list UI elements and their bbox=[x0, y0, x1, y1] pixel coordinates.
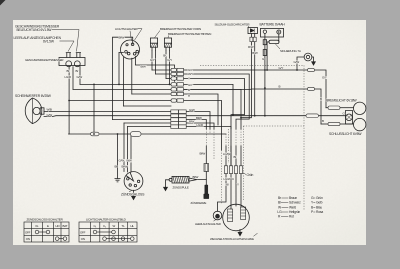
multipin connector row y111.6 bbox=[171, 110, 179, 114]
battery left terminal bbox=[263, 30, 266, 33]
multipin connector row y119.5 bbox=[171, 118, 179, 122]
leader fuse label bbox=[276, 44, 281, 49]
rectifier diode symbol bbox=[250, 29, 254, 33]
svg-text:Bl/W: Bl/W bbox=[193, 175, 199, 179]
connector row y70 bbox=[171, 68, 177, 71]
svg-text:Grün: Grün bbox=[316, 196, 323, 200]
svg-text:Hellgrün: Hellgrün bbox=[289, 210, 300, 214]
svg-text:Bl: Bl bbox=[278, 201, 281, 205]
svg-text:E: E bbox=[47, 224, 49, 228]
svg-text:Rosa: Rosa bbox=[316, 210, 323, 214]
svg-text:Y: Y bbox=[188, 77, 190, 81]
svg-text:Bl/W: Bl/W bbox=[119, 36, 125, 40]
headlight reflector bbox=[25, 98, 42, 124]
wire light switch leg3 to connector top bbox=[135, 57, 174, 82]
wire row y70 G/Y long run to brake light bbox=[152, 69, 171, 71]
svg-text:Weiß: Weiß bbox=[289, 205, 296, 209]
svg-text:Br: Br bbox=[76, 69, 79, 73]
brake light switch rear body bbox=[164, 38, 171, 47]
svg-text:Grün: Grün bbox=[247, 173, 254, 177]
alternator body bbox=[223, 204, 250, 231]
corner mark bbox=[0, 0, 6, 6]
leader alternator label bbox=[254, 233, 258, 236]
wire rectifier leg R/W bbox=[241, 34, 251, 118]
alternator connector 3 bbox=[234, 166, 237, 174]
light switch body bbox=[121, 40, 140, 59]
svg-text:ZÜNDKERZE: ZÜNDKERZE bbox=[191, 201, 207, 205]
headlight bulb bbox=[33, 107, 40, 114]
svg-text:LG/W: LG/W bbox=[223, 152, 230, 156]
svg-text:Blau: Blau bbox=[316, 205, 322, 209]
svg-text:6V1.5W: 6V1.5W bbox=[43, 39, 55, 43]
svg-text:ZÜNDSCHLOSS-SCHALTER: ZÜNDSCHLOSS-SCHALTER bbox=[27, 217, 64, 221]
wire ignition switch ground stub bbox=[133, 190, 135, 196]
alternator connector 4 bbox=[239, 166, 242, 174]
oval connector tail bulb bbox=[328, 122, 340, 125]
svg-text:G/W: G/W bbox=[47, 113, 53, 117]
table ignition switch bbox=[24, 222, 69, 242]
svg-text:B: B bbox=[188, 93, 190, 97]
svg-text:ZÜNDSCHLOSS: ZÜNDSCHLOSS bbox=[121, 193, 145, 197]
oval connector green lamp run bbox=[306, 114, 319, 118]
leader light switch label bbox=[130, 29, 142, 41]
leader speedometer label bbox=[58, 59, 60, 61]
ground under alternator bbox=[238, 232, 242, 236]
leader leerlaufschalter label bbox=[214, 220, 217, 222]
wire row y134 green with inline connectors bbox=[69, 133, 91, 135]
dashed frame left x243.3 bbox=[242, 126, 244, 200]
wire speedo lamp lead1 bbox=[68, 67, 70, 134]
svg-text:Bl/W: Bl/W bbox=[196, 116, 202, 120]
dashed wire x228.5 continuation bbox=[228, 129, 230, 163]
svg-text:Bl/W: Bl/W bbox=[122, 165, 128, 169]
svg-text:LEERLAUF-ANZEIGELAMPCHEN: LEERLAUF-ANZEIGELAMPCHEN bbox=[14, 36, 62, 40]
svg-text:OFF: OFF bbox=[25, 231, 31, 235]
svg-text:Gelb: Gelb bbox=[316, 201, 323, 205]
wire row y89 B run to tail light bbox=[184, 88, 308, 90]
table titles and headers bbox=[25, 217, 134, 241]
svg-text:B: B bbox=[320, 97, 322, 101]
wire battery left terminal stem bbox=[264, 34, 266, 37]
svg-text:LEERLAUFSCHALTER: LEERLAUFSCHALTER bbox=[195, 222, 221, 226]
wire light switch left exit bbox=[119, 52, 123, 84]
wire horn stem and ground arm bbox=[297, 57, 304, 70]
connector row y84.4 bbox=[171, 83, 177, 86]
svg-text:Y: Y bbox=[237, 183, 239, 187]
wire fuse to junction bbox=[266, 42, 268, 70]
svg-text:WECHSELSTROM-LICHTMASCHINE: WECHSELSTROM-LICHTMASCHINE bbox=[210, 237, 254, 241]
dashed frame right x304 bbox=[303, 65, 305, 210]
dashed frame top y65 bbox=[200, 64, 304, 66]
tail lamp bracket bbox=[346, 111, 353, 125]
leader gruen note bbox=[243, 173, 246, 175]
wire brake switch2 legs bbox=[165, 51, 167, 79]
wire brake light feed bbox=[326, 107, 328, 109]
alternator coil element right bbox=[241, 207, 246, 220]
multipin connector row y123 bbox=[171, 121, 179, 125]
svg-text:W/Y: W/Y bbox=[188, 72, 193, 76]
brake light bulb bbox=[354, 102, 366, 114]
svg-text:BREMSLICHTSCHALTER VORN: BREMSLICHTSCHALTER VORN bbox=[160, 27, 201, 31]
wire coil right lead to plug line bbox=[189, 178, 206, 181]
wire trunk x241 down to connector4 bbox=[240, 89, 242, 129]
svg-text:SILIZIUM-GLEICHRICHTER: SILIZIUM-GLEICHRICHTER bbox=[215, 23, 251, 27]
dashed segment x241 bbox=[240, 129, 242, 146]
wire connector3 into alternator bbox=[235, 174, 237, 207]
connector row y78.5 bbox=[171, 77, 177, 80]
dashed segment x231 bbox=[230, 129, 232, 146]
svg-text:SCHEINWERFER 6V25W: SCHEINWERFER 6V25W bbox=[15, 94, 52, 98]
oval connector brake run bbox=[308, 68, 315, 71]
svg-text:BAT: BAT bbox=[63, 224, 68, 228]
wire alternator ground stub bbox=[239, 229, 241, 232]
wire ignition feed x124 bbox=[123, 123, 125, 172]
wire ignition feed x117.5 from row134 bbox=[117, 134, 119, 179]
wire row y100.5 right segment bbox=[184, 101, 222, 151]
tail light bulb bbox=[354, 118, 366, 130]
wire ignition feed x127.5 bbox=[127, 127, 129, 173]
wire row y106 bbox=[123, 105, 171, 107]
battery right terminal bbox=[277, 30, 281, 34]
dashed vert near bundle bbox=[221, 150, 223, 204]
svg-text:Rot: Rot bbox=[289, 215, 294, 219]
wire light switch Bl/W top wire bbox=[113, 37, 133, 119]
wire light switch leg2 bbox=[131, 58, 133, 94]
horn body bbox=[304, 53, 312, 61]
svg-text:GESCHWINDIGKEITSMESSER: GESCHWINDIGKEITSMESSER bbox=[25, 58, 63, 62]
svg-text:R/W: R/W bbox=[248, 45, 254, 49]
svg-text:OFF: OFF bbox=[80, 231, 86, 235]
spark plug body bbox=[205, 185, 208, 194]
svg-text:B/W: B/W bbox=[252, 51, 258, 55]
ignition switch terminals bbox=[127, 178, 129, 180]
svg-text:LG/R: LG/R bbox=[197, 123, 204, 127]
leader speedo illumination label bbox=[52, 30, 79, 52]
svg-text:SCHLUSSLICHT 6V5W: SCHLUSSLICHT 6V5W bbox=[329, 132, 362, 136]
svg-text:SICHERUNG 7A: SICHERUNG 7A bbox=[280, 49, 301, 53]
oval connector tail run bbox=[308, 87, 315, 90]
dashed frame mid y126 bbox=[243, 125, 304, 127]
svg-text:B/W: B/W bbox=[189, 120, 195, 124]
svg-text:B/W: B/W bbox=[127, 159, 133, 163]
svg-text:G/Y: G/Y bbox=[150, 58, 155, 62]
table light switch bbox=[79, 222, 137, 242]
alternator connector 2 bbox=[229, 166, 232, 174]
svg-text:G/Y: G/Y bbox=[279, 66, 284, 70]
connector row y89.4 bbox=[171, 88, 177, 91]
svg-text:BREMSLICHTSCHALTER HINTEN: BREMSLICHTSCHALTER HINTEN bbox=[168, 32, 211, 36]
wire connector1 to neutral switch bbox=[218, 174, 227, 212]
oval connector on green row large bbox=[131, 132, 142, 137]
wire row y126.5 bbox=[128, 126, 172, 128]
multipin connector row y126.5 bbox=[171, 125, 179, 128]
speedometer terminal posts bbox=[66, 53, 81, 58]
wire row y74 bbox=[156, 73, 172, 75]
battery cell connector lower bbox=[263, 50, 266, 56]
neutral switch body bbox=[213, 211, 222, 220]
rectifier lead connectors bbox=[250, 37, 253, 41]
svg-text:LG/W: LG/W bbox=[224, 177, 231, 181]
wire light switch leg1 bbox=[122, 58, 124, 107]
speedometer lamp right bbox=[74, 61, 80, 67]
dashed wire x210 stub bbox=[209, 129, 211, 134]
battery cell connector upper bbox=[263, 40, 266, 45]
svg-text:LG/R: LG/R bbox=[65, 75, 72, 79]
inline connectors (bullet style) bbox=[91, 37, 341, 173]
svg-text:W/B: W/B bbox=[47, 108, 52, 112]
wire headlight upper W/B row y111.4 bbox=[44, 110, 171, 112]
leader lines for labels bbox=[52, 25, 280, 237]
svg-text:B: B bbox=[188, 88, 190, 92]
wire speedo lamp lead3 bbox=[79, 66, 81, 84]
ignition switch body bbox=[124, 172, 143, 191]
svg-text:G/W: G/W bbox=[119, 159, 125, 163]
wire speedo row y100.5 bbox=[69, 100, 171, 102]
ignition coil left terminal bbox=[169, 178, 172, 181]
wire spark plug lead lower bbox=[205, 172, 207, 187]
ground at ignition coil bbox=[164, 187, 168, 190]
svg-text:G/Y: G/Y bbox=[322, 76, 327, 80]
svg-text:Braun: Braun bbox=[289, 196, 297, 200]
component name labels bbox=[14, 23, 363, 241]
svg-text:LG: LG bbox=[277, 210, 282, 214]
leader neutral lamp label bbox=[60, 41, 75, 52]
wire connector2 into alternator bbox=[230, 174, 232, 210]
speedometer lamp left bbox=[66, 61, 72, 67]
leader rectifier label bbox=[246, 25, 250, 27]
wire ignition feed x131 bbox=[130, 134, 132, 172]
fuse capsule bbox=[269, 40, 279, 43]
wire speedo lamp lead2 bbox=[72, 67, 74, 90]
connector row y94 bbox=[171, 92, 177, 95]
multipin connector row y115.7 bbox=[171, 114, 179, 118]
svg-text:G/W: G/W bbox=[294, 60, 300, 64]
wire bundle x226 down to connector1 bbox=[225, 146, 227, 166]
alternator coil element left bbox=[228, 209, 233, 222]
wire brake switch1 legs bbox=[151, 51, 153, 71]
oval connector brake bulb bbox=[328, 106, 340, 109]
wire coil left lead to ground bbox=[166, 180, 170, 188]
wire color labels bbox=[47, 36, 346, 187]
dashed segment x206.3 bbox=[205, 129, 207, 146]
ignition coil body bbox=[172, 176, 189, 183]
svg-text:B/W: B/W bbox=[141, 65, 147, 69]
svg-text:Bl/W: Bl/W bbox=[200, 152, 206, 156]
leader zundschloss label bbox=[129, 191, 132, 192]
svg-text:ON: ON bbox=[81, 237, 85, 241]
dashed wire x214 continuation bbox=[213, 129, 215, 160]
svg-text:G/Y: G/Y bbox=[167, 58, 172, 62]
svg-text:B: B bbox=[279, 84, 281, 88]
svg-text:BELEUCHTUNG 6V1.5W: BELEUCHTUNG 6V1.5W bbox=[17, 28, 53, 32]
ground under ignition switch bbox=[132, 196, 136, 199]
spark plug connector box bbox=[204, 164, 209, 172]
wire battery left leg down to green line bbox=[264, 37, 266, 116]
connector row y74 bbox=[171, 72, 177, 75]
ignition switch wedge bbox=[126, 172, 134, 181]
legend color codes bbox=[277, 196, 323, 219]
wire headlight lower G/W row y115.7 long to lamp body bbox=[44, 115, 171, 118]
wire row y84.4 bbox=[80, 83, 171, 85]
wire drop x94 to green row bbox=[93, 84, 95, 134]
wire row y94 bbox=[132, 93, 171, 95]
dashed segment x226 bbox=[225, 134, 227, 146]
headlight socket bbox=[40, 108, 44, 114]
battery body bbox=[261, 28, 284, 37]
light switch terminals bbox=[125, 51, 128, 54]
svg-text:G/W: G/W bbox=[77, 75, 83, 79]
svg-text:ZÜNDSPULE: ZÜNDSPULE bbox=[173, 185, 189, 189]
ground at horn bbox=[312, 62, 316, 65]
svg-text:B: B bbox=[322, 119, 324, 123]
wire row y119.5 Bl/W to ignition coil bbox=[113, 119, 172, 121]
brake light switch front body bbox=[150, 38, 157, 47]
page bbox=[13, 20, 366, 245]
dashed segment x236 bbox=[235, 129, 237, 146]
ground bars left of ignition switch bbox=[115, 179, 121, 182]
svg-text:G/Y: G/Y bbox=[188, 83, 193, 87]
svg-text:Br: Br bbox=[163, 53, 166, 57]
rectifier box bbox=[248, 27, 257, 33]
svg-text:LICHTSCHALTER: LICHTSCHALTER bbox=[115, 27, 138, 31]
wire battery fuse branch bbox=[278, 34, 280, 42]
wire row y83 right segment bbox=[184, 84, 234, 114]
svg-text:LICHTSCHALTER-SCHALTBILD: LICHTSCHALTER-SCHALTBILD bbox=[86, 217, 127, 221]
alternator connector 1 bbox=[224, 166, 227, 174]
leader brake switch labels bbox=[155, 31, 169, 38]
svg-text:G/W: G/W bbox=[189, 108, 195, 112]
svg-text:C₁: C₁ bbox=[94, 224, 97, 228]
oval connector on green row small bbox=[91, 132, 100, 136]
junction dots bbox=[68, 69, 298, 135]
svg-text:ON: ON bbox=[26, 237, 30, 241]
speedometer body bbox=[59, 58, 85, 66]
wire rectifier leg B/W bbox=[254, 34, 256, 116]
wire tail light feed bbox=[321, 123, 328, 125]
wire row y123 bbox=[124, 122, 171, 124]
wire connector4 into alternator bbox=[240, 174, 242, 208]
wire row y78.5 bbox=[166, 78, 171, 80]
wire row y89.4 to trunk bbox=[73, 88, 241, 90]
svg-text:Schwarz: Schwarz bbox=[289, 201, 301, 205]
svg-text:C₂: C₂ bbox=[103, 224, 106, 228]
connector row y100.5 bbox=[171, 99, 177, 102]
svg-text:BREMSLICHT 6V18W: BREMSLICHT 6V18W bbox=[326, 99, 358, 103]
svg-text:BATTERIE 6V4AH: BATTERIE 6V4AH bbox=[260, 23, 286, 27]
